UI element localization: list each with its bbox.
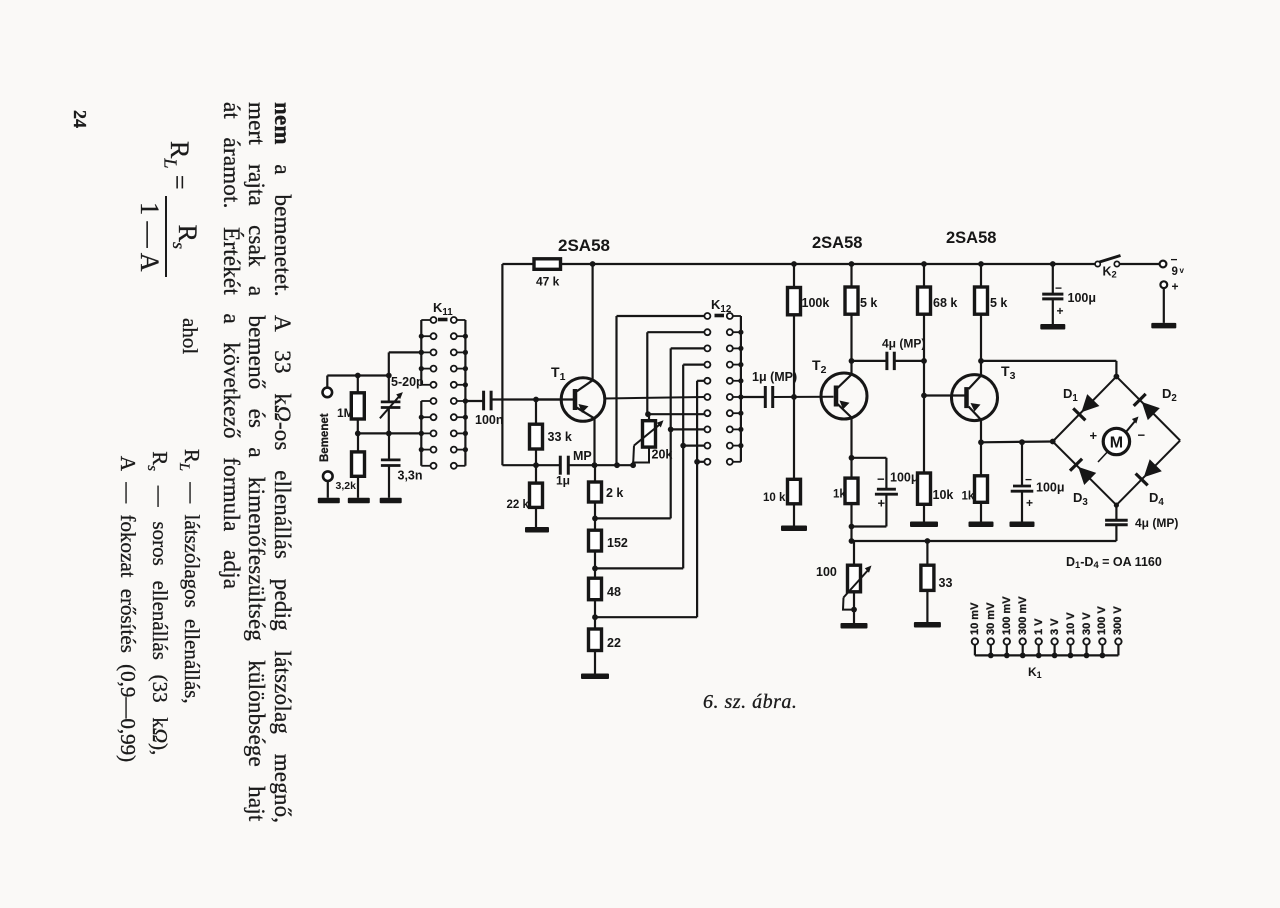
svg-text:3,2k: 3,2k — [336, 480, 357, 492]
svg-text:−: − — [1055, 281, 1062, 295]
svg-text:+: + — [1026, 496, 1033, 510]
svg-text:9: 9 — [1172, 266, 1178, 278]
svg-text:K2: K2 — [1103, 265, 1117, 280]
svg-text:2SA58: 2SA58 — [558, 236, 610, 255]
svg-text:33: 33 — [939, 576, 953, 590]
svg-text:K11: K11 — [433, 300, 453, 318]
svg-text:2 k: 2 k — [606, 486, 623, 500]
svg-text:100: 100 — [816, 565, 837, 579]
svg-text:−: − — [1171, 253, 1178, 267]
svg-text:1k: 1k — [962, 491, 975, 503]
svg-text:4μ (MP): 4μ (MP) — [1135, 516, 1178, 530]
svg-text:D4: D4 — [1149, 490, 1164, 508]
svg-text:K1: K1 — [1028, 665, 1042, 680]
svg-text:47 k: 47 k — [536, 275, 560, 289]
svg-text:−: − — [877, 472, 885, 487]
svg-text:+: + — [878, 496, 886, 511]
svg-text:4μ (MP): 4μ (MP) — [882, 337, 925, 351]
svg-text:3,3n: 3,3n — [398, 469, 423, 483]
svg-text:1k: 1k — [833, 489, 846, 501]
svg-text:D2: D2 — [1162, 386, 1177, 404]
svg-text:100k: 100k — [802, 296, 830, 310]
svg-text:100μ: 100μ — [890, 471, 919, 485]
svg-text:T1: T1 — [551, 364, 566, 383]
svg-text:−: − — [1025, 473, 1032, 487]
svg-text:5 k: 5 k — [990, 296, 1007, 310]
svg-text:68 k: 68 k — [933, 296, 957, 310]
svg-text:D1-D4 = OA 1160: D1-D4 = OA 1160 — [1066, 555, 1162, 570]
svg-text:T2: T2 — [812, 357, 827, 376]
svg-text:48: 48 — [607, 585, 621, 599]
svg-text:22: 22 — [607, 636, 621, 650]
svg-text:10k: 10k — [933, 488, 954, 502]
svg-text:+: + — [1172, 280, 1179, 294]
svg-text:10 k: 10 k — [763, 492, 786, 504]
svg-text:5-20p: 5-20p — [391, 375, 424, 389]
svg-text:T3: T3 — [1001, 363, 1016, 382]
svg-text:2SA58: 2SA58 — [946, 229, 996, 247]
svg-text:+: + — [1057, 304, 1064, 318]
svg-text:K12: K12 — [711, 297, 732, 315]
svg-text:33 k: 33 k — [548, 430, 572, 444]
svg-text:MP: MP — [573, 449, 592, 463]
svg-text:+: + — [1090, 428, 1098, 443]
svg-text:v: v — [1180, 266, 1185, 275]
svg-text:1μ: 1μ — [556, 474, 570, 488]
svg-text:−: − — [1138, 428, 1146, 443]
svg-text:100n: 100n — [475, 413, 504, 427]
svg-text:152: 152 — [607, 536, 628, 550]
svg-text:100μ: 100μ — [1068, 291, 1097, 305]
svg-text:100μ: 100μ — [1036, 481, 1065, 495]
svg-text:1μ (MP): 1μ (MP) — [752, 370, 797, 384]
svg-text:20k: 20k — [652, 448, 673, 462]
svg-text:22 k: 22 k — [507, 499, 530, 511]
svg-text:2SA58: 2SA58 — [812, 234, 862, 252]
svg-text:D1: D1 — [1063, 386, 1078, 404]
svg-text:1M: 1M — [337, 406, 354, 420]
svg-text:M: M — [1110, 435, 1123, 452]
svg-text:5 k: 5 k — [860, 296, 877, 310]
svg-text:D3: D3 — [1073, 490, 1088, 508]
